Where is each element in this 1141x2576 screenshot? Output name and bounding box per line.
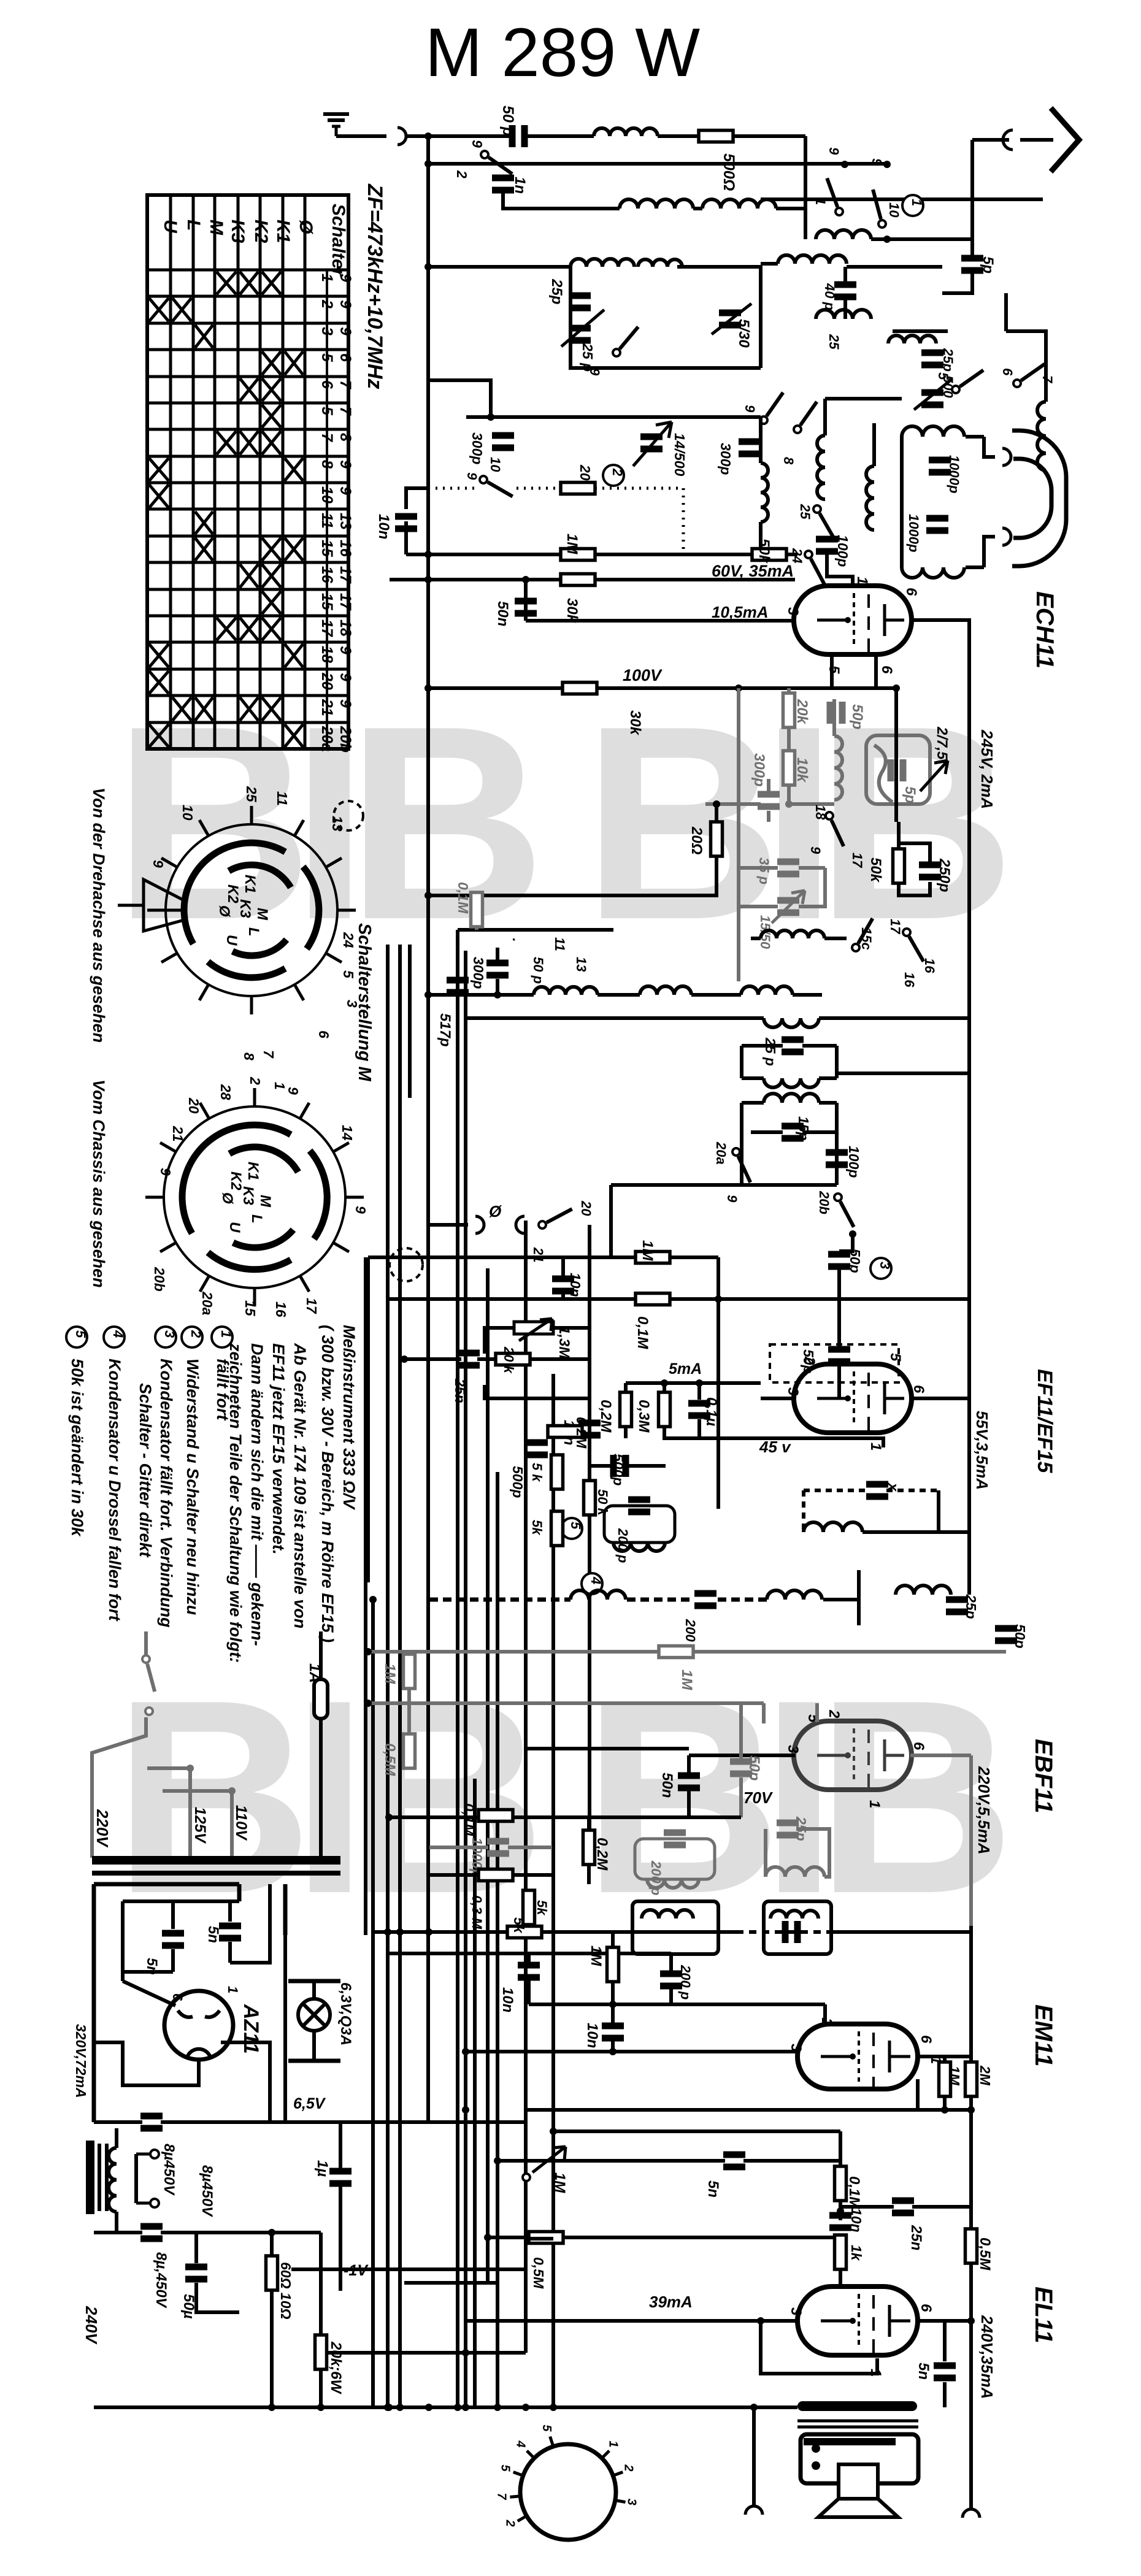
wire [837,1364,841,1398]
svg-text:320V,72mA: 320V,72mA [73,2024,89,2098]
wire [526,2237,553,2241]
switch contact 20a-9 [732,1148,750,1183]
anode wire [918,2319,971,2323]
gray wire [475,927,478,930]
bus wire x795 [486,1268,490,2283]
wire [496,948,499,960]
wire [485,1328,514,1354]
mains switch [142,1655,155,1692]
junction [550,2128,557,2135]
switch contact 20b [834,1194,854,1227]
resistor 20Ω [711,822,723,856]
wire [406,553,561,556]
junction [228,1787,236,1795]
svg-text:EBF11: EBF11 [1030,1739,1057,1814]
junction [186,1765,194,1772]
svg-text:2: 2 [622,2464,636,2471]
wire [969,2096,973,2110]
svg-text:0,3 M: 0,3 M [469,1895,485,1930]
svg-text:5n: 5n [915,2363,932,2380]
svg-text:30k: 30k [627,710,643,736]
gray wire [147,1766,190,1770]
IF can coil [770,1911,818,1919]
svg-text:0,5M: 0,5M [977,2237,993,2271]
capacitor 0,1µ [688,1400,710,1419]
svg-text:110V: 110V [232,1805,250,1841]
wire [319,2369,323,2407]
wire [943,2057,947,2062]
wire [595,578,709,581]
svg-text:1M: 1M [639,1240,656,1261]
main bus wire x698 [426,136,430,2122]
dashed pigtail [390,1248,423,1281]
wire [793,993,822,997]
wire [835,1046,839,1078]
circled number 1 [212,1327,234,1347]
gray wire [739,1703,743,1759]
svg-text:9: 9 [337,460,354,469]
anode wire gray [910,1754,971,1757]
junction [425,684,432,692]
dashed box EF15 note [770,1344,899,1382]
IF coil [534,987,597,995]
wire [843,300,847,319]
wire [804,136,807,239]
capacitor 200p (gray) [664,1830,686,1849]
wire [871,237,972,241]
trimmer capacitor 14/500 [640,434,663,453]
gray wire 220V [92,1717,146,1858]
svg-text:14: 14 [339,1125,355,1141]
wire -1V rail extension [340,2267,526,2271]
svg-text:25: 25 [826,334,842,350]
frame antenna [1013,459,1051,538]
wire [466,2319,761,2323]
svg-text:21: 21 [531,1247,546,1262]
svg-text:220V,5,5mA: 220V,5,5mA [975,1766,993,1855]
svg-text:1M: 1M [382,1663,398,1684]
svg-text:300p: 300p [751,753,767,787]
tube socket diagram [520,2444,616,2540]
capacitor 50p (gray) [730,1758,752,1777]
junction [462,2106,469,2114]
svg-text:9: 9 [337,274,354,282]
junction [494,2404,501,2411]
antenna lead [972,138,1009,142]
capacitor 300p (gray) [758,791,780,810]
svg-text:28: 28 [218,1084,234,1100]
wire [94,2120,142,2124]
svg-text:Kondensator u Drossel fallen f: Kondensator u Drossel fallen fort [106,1359,124,1622]
gray coil [834,736,842,800]
wire [477,1357,496,1361]
svg-text:Von der Drehachse aus gesehen: Von der Drehachse aus gesehen [90,788,108,1043]
cathode wire [663,1438,883,1447]
junction [713,800,720,808]
wire [429,1873,478,1877]
heater bar [288,1979,340,1984]
svg-text:9: 9 [826,147,842,155]
svg-text:11: 11 [552,937,567,951]
capacitor [140,2113,163,2132]
thick mains bar [92,1856,340,1865]
svg-text:8: 8 [241,1052,257,1060]
resistor 5k [507,1926,542,1938]
wire grid [827,554,853,587]
svg-text:50k: 50k [756,539,772,564]
junction [396,1928,404,1936]
svg-text:15: 15 [242,1300,258,1317]
wire [611,1982,615,2004]
gray wire down [969,1755,973,1926]
svg-text:5p: 5p [902,786,918,803]
connector hook [398,128,406,145]
transformer core [86,2141,107,2214]
svg-text:0,1M: 0,1M [455,882,471,914]
wire [663,1427,666,1438]
anode wire [910,1397,969,1400]
svg-text:0,1M: 0,1M [460,1803,477,1836]
svg-text:K3: K3 [240,1186,256,1205]
bus wire x857 [524,1221,528,2353]
svg-text:10n: 10n [499,1987,516,2012]
svg-text:6: 6 [170,1993,185,2001]
junction [883,161,891,168]
gray wire [508,1846,552,1849]
svg-text:5/30: 5/30 [736,319,752,348]
svg-text:50 p: 50 p [531,957,546,984]
wire rail [832,1930,971,1934]
svg-text:-1V: -1V [344,2262,369,2279]
wire [823,399,827,435]
junction [385,1814,393,1821]
hook to frame antenna [1002,528,1011,545]
coil [778,255,847,264]
wire [319,1631,323,1679]
svg-text:16: 16 [902,972,917,987]
resistor 50k [584,1481,596,1515]
junction [462,2404,469,2411]
capacitor 25p [569,293,591,312]
capacitor 5p (gray) [888,759,907,781]
socket pin 5 [550,2437,553,2447]
circled 4 [582,1573,604,1594]
antenna lead [1020,138,1053,142]
svg-text:9: 9 [158,1168,174,1176]
gray wire [762,1703,766,1723]
wire to band filter [733,134,805,138]
svg-text:5k: 5k [529,1520,545,1536]
capacitor 5n [162,1930,184,1949]
wire [776,207,805,210]
wire [918,2055,971,2058]
svg-text:39mA: 39mA [649,2293,693,2311]
svg-text:Ø: Ø [296,220,316,235]
coil [896,1585,951,1595]
svg-text:517p: 517p [437,1013,453,1047]
svg-text:20: 20 [186,1097,202,1114]
svg-text:245V, 2mA: 245V, 2mA [978,729,996,809]
svg-text:20b: 20b [816,1190,832,1214]
svg-text:9: 9 [353,1206,369,1214]
junction [841,161,848,168]
resistor 1k [835,2235,847,2269]
wire [123,1970,173,1974]
coil 25 [816,310,871,319]
wire [503,191,620,209]
junction [837,2207,844,2215]
potentiometer 1M [523,2147,566,2181]
wire [984,537,995,567]
wire [786,553,797,556]
junction [425,551,432,558]
circled 2 [603,465,625,486]
loop 200p [604,1506,675,1543]
svg-text:20a: 20a [713,1141,729,1165]
bus wire x759 [464,951,467,2407]
wire [819,1101,837,1105]
wire [597,993,640,997]
svg-text:2: 2 [454,170,470,178]
bus wire x596 [364,1257,367,1935]
svg-text:0,1M: 0,1M [634,1316,651,1349]
svg-text:45 v: 45 v [759,1438,791,1456]
svg-text:50n: 50n [659,1773,675,1798]
junction [757,2317,764,2325]
wire [595,553,752,556]
dashed wire [682,488,685,554]
rotary funnel [118,880,184,931]
resistor 1M [561,549,595,561]
antenna coil [594,128,658,136]
svg-text:1M: 1M [564,534,580,554]
wire [161,2231,239,2234]
svg-text:3: 3 [788,2307,804,2316]
wire [943,2321,947,2361]
wire down [969,2407,973,2509]
resistor 0,3M [478,1869,513,1881]
capacitor 40p [834,282,856,301]
wire [761,197,1043,201]
gray mains wire [144,1631,148,1656]
svg-text:5k: 5k [534,1900,550,1916]
resistor 0,5M [529,2232,563,2244]
wire down [967,1398,971,1595]
svg-text:0,2M: 0,2M [574,1417,590,1449]
svg-text:fällt fort: fällt fort [213,1359,232,1420]
junction [462,2349,469,2356]
svg-text:5p: 5p [980,256,996,274]
svg-text:18: 18 [813,805,828,820]
svg-text:1: 1 [607,2440,620,2447]
junction [401,1355,408,1363]
gray wire [787,727,791,751]
junction [609,2048,617,2055]
svg-text:200 p: 200 p [648,1860,664,1895]
wire [561,1257,565,1278]
switch contact 6-7 [1013,364,1045,387]
wire [966,435,984,439]
wire top rail [406,134,515,138]
svg-text:5 k: 5 k [529,1463,545,1482]
wire [629,1464,666,1468]
svg-text:50k ist geändert in 30k: 50k ist geändert in 30k [68,1359,86,1538]
IFT coil [764,1094,819,1103]
grid wire [689,1754,795,1757]
resistor 1M (gray) [404,1654,415,1689]
svg-text:6,5V: 6,5V [293,2095,326,2112]
resistor 5k [523,1890,535,1925]
hook to frame antenna [1002,448,1011,466]
capacitor 300p [492,432,514,451]
wire [893,329,948,333]
svg-text:BIB: BIB [583,1643,1005,1951]
svg-text:24: 24 [340,932,356,948]
svg-text:50 k: 50 k [595,1489,610,1517]
switch contact 18 [826,812,843,846]
svg-text:1M: 1M [551,2172,568,2193]
capacitor 1000p [929,457,951,476]
wire [496,979,499,995]
svg-text:13: 13 [329,816,345,832]
resistor 500Ω [699,131,733,142]
svg-text:20 k: 20 k [501,1346,517,1374]
junction [967,2317,975,2325]
junction [494,991,501,999]
wire [825,397,902,401]
junction [385,2404,393,2411]
gray wire [163,1789,232,1793]
wire [270,2233,274,2256]
wire [283,1884,288,1935]
heater rail extension [321,2120,526,2124]
wire -1V [291,2269,340,2291]
junction [317,2404,325,2411]
capacitor 10n [578,1420,601,1439]
IF can 2 [764,1901,831,1954]
junction [364,1648,372,1655]
svg-text:300p: 300p [718,443,734,475]
wire [171,1901,175,1929]
svg-text:240V,35mA: 240V,35mA [978,2315,996,2399]
loop 200p gray [635,1839,715,1879]
wire [587,1865,591,1884]
capacitor 50p [828,1346,850,1365]
wire [839,2131,842,2166]
resistor 50k [893,849,905,883]
gray wire [368,1650,659,1654]
wire rail [321,2351,526,2355]
mains switch contact [145,1708,153,1715]
svg-text:17: 17 [304,1298,320,1314]
svg-text:200 p: 200 p [678,1965,693,1999]
svg-text:9: 9 [150,860,166,868]
resistor 10k (gray) [783,751,795,785]
svg-text:9: 9 [869,158,885,166]
dashed wire [886,1489,939,1492]
lamp wire [312,2031,316,2061]
wire [404,1357,461,1361]
wire [319,1719,323,1858]
svg-text:K1: K1 [273,220,293,243]
wire [527,1953,531,1963]
wire [835,1103,839,1185]
svg-text:20b: 20b [337,726,354,753]
capacitor 500p [526,1439,548,1459]
wire [669,1953,673,1971]
svg-text:9: 9 [337,699,354,708]
svg-text:35 p: 35 p [756,857,772,884]
junction [715,1295,722,1303]
svg-text:L: L [183,220,204,231]
svg-text:Vom Chassis aus gesehen: Vom Chassis aus gesehen [90,1079,108,1288]
resistor 0,2M [620,1392,632,1427]
wire [823,1598,859,1601]
gray wire [787,785,791,804]
wire [430,1223,468,1227]
svg-text:1000p: 1000p [947,455,962,493]
svg-text:0,1M: 0,1M [846,2176,862,2209]
junction [750,2404,758,2411]
wire [872,423,876,466]
capacitor 500 [921,389,943,408]
svg-text:Schalter - Gitter direkt: Schalter - Gitter direkt [136,1383,155,1558]
wire [485,1359,590,1398]
junction [735,684,742,692]
svg-text:20b: 20b [152,1267,167,1292]
wire down [752,2407,756,2505]
wire IF rail [428,993,534,997]
svg-text:220V: 220V [93,1809,112,1848]
wire [759,522,763,554]
svg-text:5: 5 [540,2425,553,2432]
svg-text:K1: K1 [245,1162,261,1181]
svg-text:9: 9 [285,1087,301,1095]
gray wire [789,802,834,806]
capacitor 300p [739,439,761,458]
fuse 1A [314,1679,328,1719]
svg-text:7: 7 [494,2493,508,2500]
svg-text:9: 9 [337,327,354,335]
bus wire x652 [398,945,402,2407]
capacitor 50µ [185,2264,207,2283]
svg-text:5n: 5n [205,1926,221,1943]
wire [626,1381,761,1385]
IF coil [741,986,793,995]
wire down [366,1257,370,1582]
junction [425,892,432,899]
wire [839,1234,853,1251]
svg-text:9: 9 [742,405,758,413]
svg-text:17: 17 [888,919,903,935]
junction [425,2404,432,2411]
svg-text:25: 25 [797,504,813,519]
rotary switch diagram (from chassis) [145,1088,364,1306]
svg-text:250p: 250p [936,858,953,892]
socket pin 5 [513,2472,523,2476]
potentiometer 1,3M [514,1319,553,1341]
wire [611,2004,615,2023]
capacitor 5n [219,1923,241,1942]
svg-text:2: 2 [826,1709,842,1719]
wire [969,2263,973,2321]
svg-text:11: 11 [274,791,290,806]
svg-text:50p: 50p [849,704,866,729]
wire [466,1016,764,1020]
junction [384,2404,391,2411]
wire second rail [428,162,887,166]
wire [404,521,408,554]
